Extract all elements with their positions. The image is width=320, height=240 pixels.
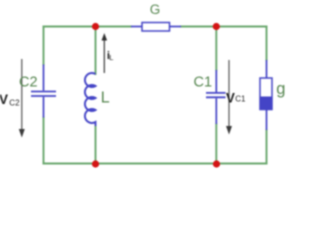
svg-text:C1: C1 [235,94,246,103]
svg-text:L: L [101,90,110,107]
svg-text:V: V [226,90,235,105]
svg-text:C1: C1 [194,74,213,90]
svg-text:g: g [276,80,285,98]
svg-text:V: V [0,92,8,107]
svg-text:C2: C2 [9,99,20,108]
svg-text:C2: C2 [19,74,38,90]
svg-text:L: L [109,53,113,62]
svg-text:G: G [150,2,161,17]
